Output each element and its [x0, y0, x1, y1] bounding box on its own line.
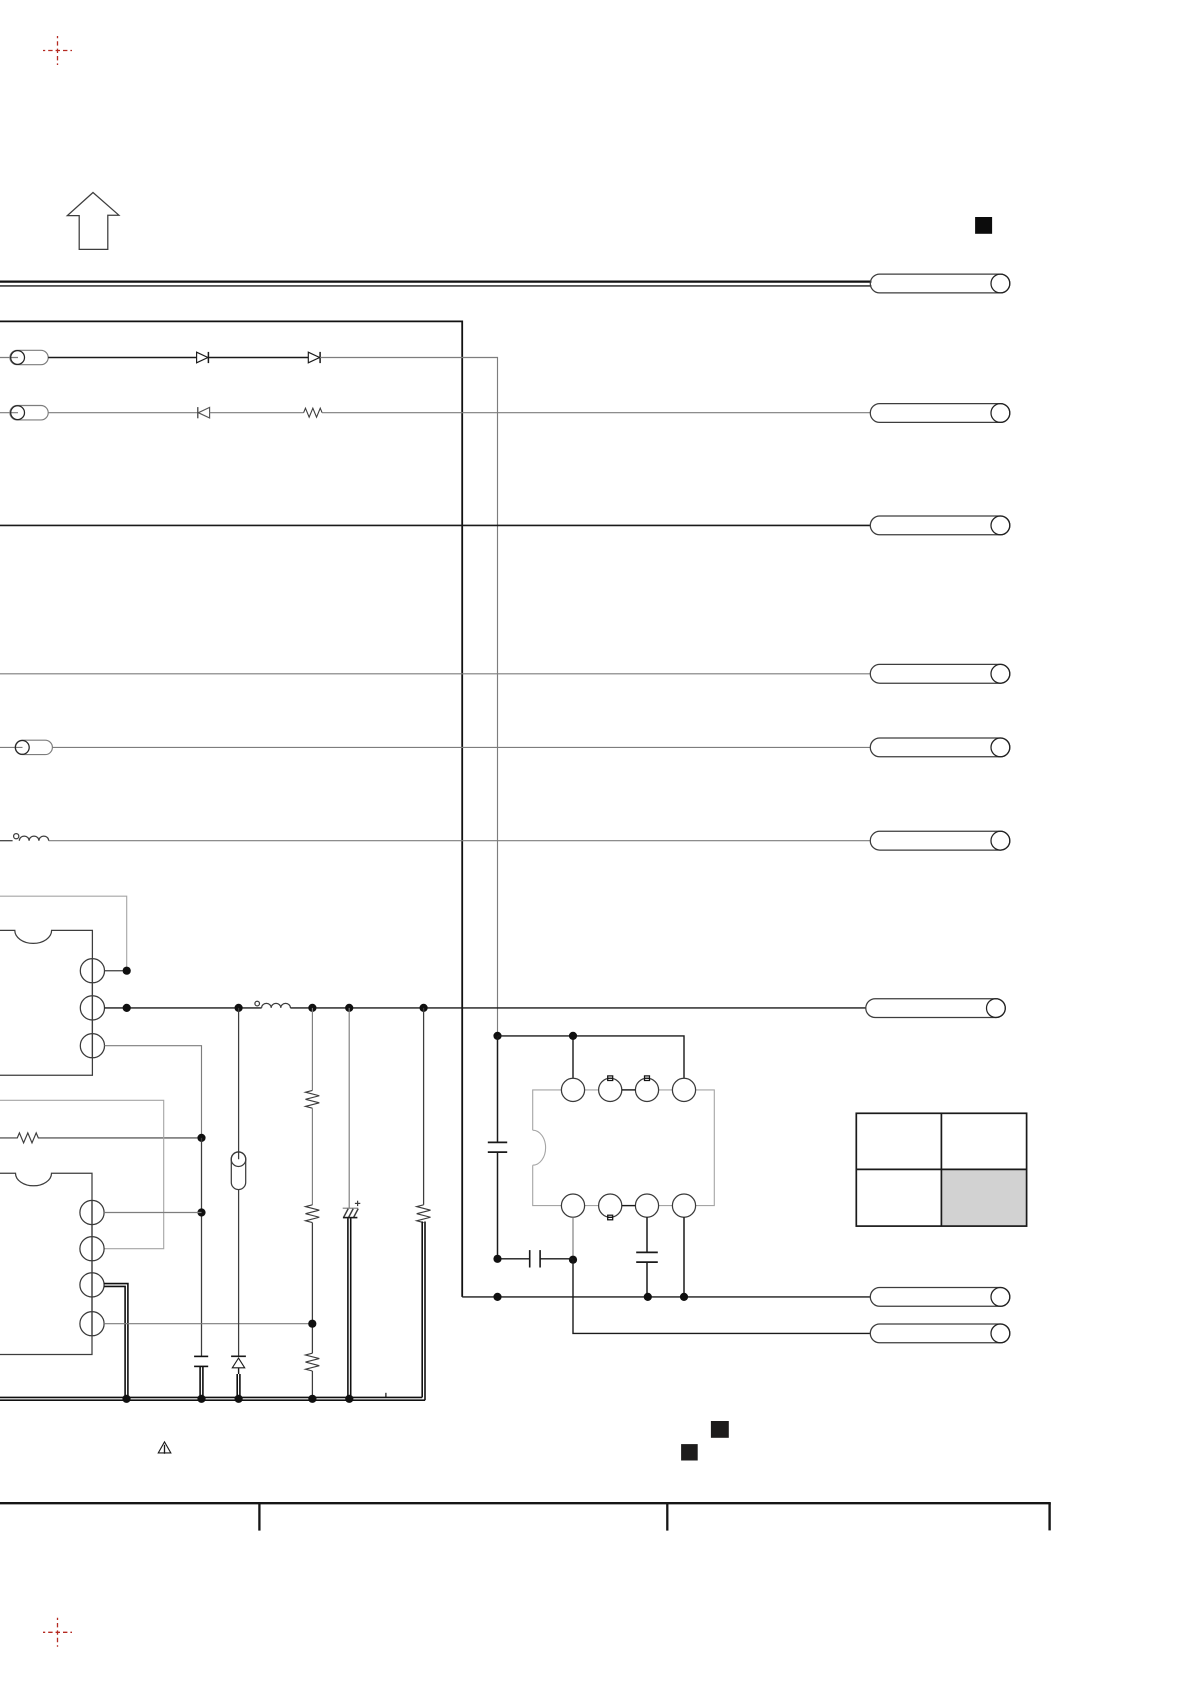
- capacitor C3 (x=497.5): [488, 1036, 507, 1259]
- transformer T1 pin 1: [80, 959, 126, 983]
- circuit protector F4 (cylinder): [231, 1152, 246, 1190]
- registration cross bottom-left: [43, 1618, 72, 1647]
- IC U1 pin 6 (bottom): [599, 1194, 622, 1220]
- IC U1 pin 4 (top): [672, 1078, 695, 1101]
- transformer T1 pin 2: [80, 983, 261, 1033]
- diode D4 (cathode up): [231, 1356, 246, 1398]
- capacitor C4 (horizontal): [493, 1250, 573, 1267]
- transformer T1 pin 3: [80, 1033, 201, 1138]
- capacitor C5 (x=647): [636, 1252, 658, 1297]
- fuse F2 (row 2): [0, 406, 48, 420]
- IC U1 pin 8 (bottom): [672, 1194, 695, 1217]
- resistor R5: [306, 1353, 320, 1398]
- diode D1: [197, 352, 209, 363]
- electrolytic capacitor C2 (+): [343, 1201, 361, 1398]
- resistor R4: [306, 1205, 320, 1223]
- IC U1 pin 3 (top): [635, 1076, 658, 1102]
- transformer T2 pin 3 (to ground bus, thick): [80, 1273, 128, 1398]
- black index square B (bottom): [681, 1444, 698, 1460]
- wire: diode D3 to resistor R1: [210, 412, 304, 414]
- ground bus (thick double): [0, 1393, 425, 1400]
- wire: pin5 node down then right to CN9: [573, 1260, 871, 1334]
- resistor R2 row with junction at x=201.5: [0, 1133, 206, 1143]
- wire: diode D1 to diode D2: [208, 357, 308, 359]
- diode D2: [308, 352, 320, 363]
- connector CN2: [870, 404, 1010, 423]
- connector CN5: [870, 738, 1010, 757]
- junction dot node L2 left: [235, 1004, 243, 1012]
- black index square top-right: [975, 217, 992, 234]
- transformer T2 pin 2: [80, 1225, 104, 1273]
- IC U1 pin 1 (top): [561, 1078, 584, 1101]
- diode D3 (points left): [198, 407, 210, 418]
- wire R4 down through junction to R5: [308, 1223, 316, 1354]
- resistor R6: [417, 1205, 431, 1223]
- wire: node line y=1036 to IC pins: [498, 1032, 685, 1079]
- wire: x=349.2 vertical to electrolytic C2: [348, 1008, 350, 1208]
- junction dots on ground bus: [122, 1395, 353, 1403]
- inductor L2 (main rail): [255, 1001, 291, 1008]
- IC U1 pin 2 (top): [599, 1076, 622, 1102]
- wire: fuse F2 to diode D3: [48, 412, 197, 414]
- wire: row 3 to CN3: [0, 524, 871, 526]
- junction dot T1 pin1 / hook: [123, 967, 131, 975]
- wire: pin 8 down to CN8 line: [683, 1217, 685, 1297]
- junction dot x=497.5 on node line: [493, 1032, 501, 1040]
- fuse F1 (row 1): [0, 350, 48, 364]
- wire: pin 7 down to capacitor C5: [646, 1217, 648, 1252]
- fuse F3 (row 5): [0, 740, 52, 754]
- transformer T2 pin 1: [80, 1200, 202, 1225]
- wire: resistor R1 to CN2: [322, 412, 871, 414]
- wire: fuse F3 to CN5: [52, 746, 870, 748]
- inductor L1 (row 6): [0, 834, 49, 841]
- wire: net A top rail then down right side: [0, 321, 462, 1297]
- wire: link pin6-pin7 bottom: [622, 1205, 636, 1207]
- registration cross top-left: [43, 36, 72, 65]
- wire between R3 and R4: [311, 1108, 313, 1205]
- IC U1 pin 5 (bottom): [561, 1194, 584, 1217]
- junction dot main node x=126.7: [123, 1004, 131, 1012]
- wire: link pin2-pin3 top: [622, 1089, 636, 1091]
- wire: hook from left edge to T1 pin 1: [0, 896, 127, 971]
- connector CN7: [866, 999, 1006, 1018]
- bottom ruler bar with ticks: [0, 1503, 1051, 1530]
- transformer T2 pin 4: [80, 1309, 312, 1336]
- connector CN6: [870, 831, 1010, 850]
- connector CN3: [870, 516, 1010, 535]
- wire: fuse F1 to diode D1: [48, 357, 196, 359]
- wire: inductor L1 to CN6: [49, 840, 871, 842]
- black index square A (bottom): [711, 1421, 729, 1438]
- junction dot x=201.5 / T2 pin1 row: [197, 1208, 205, 1216]
- wire: R6 to bus corner (thick): [422, 1222, 425, 1401]
- warning triangle: [158, 1442, 171, 1454]
- wire: diode D2 right then down at x=497.5: [320, 358, 497, 1036]
- IC U1 pin 7 (bottom): [635, 1194, 658, 1217]
- page direction arrow (up): [67, 193, 119, 250]
- wire: main rail y=1008 to CN7: [290, 1007, 866, 1009]
- wire: x=423.6 vertical to R6: [423, 1008, 425, 1205]
- resistor chain x=312.4: R3 top: [306, 1008, 320, 1108]
- transformer T1 body: [0, 930, 92, 1075]
- connector CN8: [870, 1288, 1010, 1307]
- connector CN9: [870, 1324, 1010, 1343]
- wire: x=238.6 vertical from main rail to protector: [238, 1008, 240, 1159]
- legend table 2x2: [856, 1113, 1026, 1226]
- wire: x=201.5 vertical (T1 pin3 chain): [201, 1138, 203, 1356]
- IC U1 body: [533, 1090, 715, 1206]
- resistor R1: [304, 408, 323, 417]
- wire: AC mains double line to CN1: [0, 282, 871, 286]
- wire: pin 5 down to C4 node: [569, 1217, 577, 1264]
- capacitor C1 (x=201.5): [194, 1356, 208, 1398]
- wire: protector to diode D4: [238, 1190, 240, 1357]
- transformer T2 body: [0, 1173, 92, 1354]
- connector CN1: [870, 274, 1010, 293]
- connector CN4: [870, 664, 1010, 683]
- junction dots on main rail: [308, 1004, 427, 1012]
- wire: line y=1296.9 to CN8: [462, 1293, 870, 1301]
- wire: hook from left edge to T2 pin 2: [0, 1100, 164, 1248]
- wire: row 4 to CN4: [0, 673, 871, 675]
